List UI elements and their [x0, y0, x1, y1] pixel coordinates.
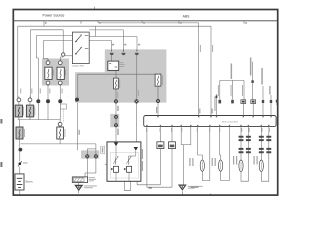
svg-text:Battery: Battery [26, 181, 34, 184]
svg-text:Ignition SW: Ignition SW [72, 64, 84, 67]
svg-text:Skid Control ECU: Skid Control ECU [222, 120, 239, 123]
svg-text:ABS: ABS [183, 15, 191, 19]
svg-text:Power Source: Power Source [43, 14, 65, 18]
